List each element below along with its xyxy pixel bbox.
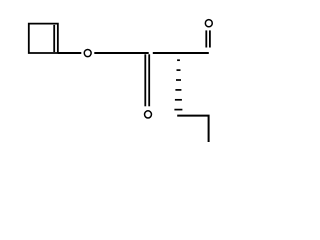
- bond ring C1 to ester O: [58, 52, 81, 54]
- atom O (ester carbonyl oxygen): [145, 111, 152, 118]
- atom O (aldehyde oxygen): [205, 20, 212, 27]
- aldehyde C=O double bond line 1: [205, 30, 207, 47]
- aldehyde C=O double bond line 2: [209, 30, 211, 47]
- bond C2 to C3 to aldehyde C (main chain): [153, 52, 209, 54]
- atom O (ester oxygen): [84, 49, 91, 56]
- ester C2=O double bond line 1: [144, 54, 146, 106]
- bond ester O to carbonyl C2: [94, 52, 148, 54]
- hashed wedge bond C3 down to propyl CH2: [174, 60, 182, 109]
- cyclobutene ring: [29, 24, 58, 53]
- ring C=C double bond inner line: [53, 25, 55, 52]
- ester C2=O double bond line 2: [148, 54, 150, 106]
- bond CH2 to CH2 and CH2 to CH3 (propyl elbow): [177, 116, 208, 142]
